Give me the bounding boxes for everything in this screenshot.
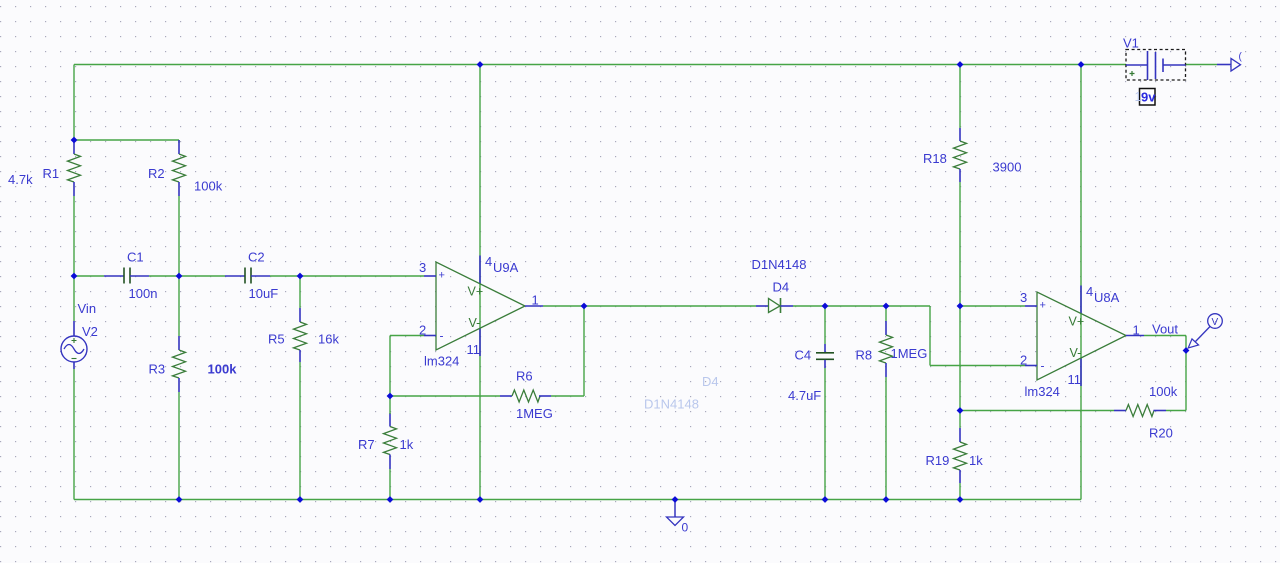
svg-text:Vout: Vout — [1152, 322, 1178, 337]
U9A minus sign — [440, 329, 444, 343]
svg-text:lm324: lm324 — [424, 354, 459, 369]
svg-text:lm324: lm324 — [1025, 384, 1060, 399]
R1 value 4.7k — [8, 172, 33, 187]
resistor R19 — [954, 428, 967, 483]
wire R2 to node — [178, 196, 180, 276]
svg-text:R1: R1 — [43, 166, 60, 181]
wire C1 to R3 node — [149, 275, 225, 277]
svg-text:100k: 100k — [208, 362, 238, 377]
U9A plus sign — [439, 270, 445, 282]
wire R1 top to R2 top — [74, 139, 179, 141]
D4 value D1N4148 — [752, 257, 807, 272]
junction C4 R8 — [883, 303, 890, 310]
svg-text:100k: 100k — [1149, 384, 1178, 399]
capacitor C1 — [104, 268, 149, 284]
svg-text:-: - — [1041, 359, 1045, 373]
junction D4 C4 — [822, 303, 829, 310]
wire node to R7 — [389, 396, 391, 414]
output port arrow — [1231, 52, 1243, 72]
wire node to R3 — [178, 276, 180, 336]
junction rail ground — [672, 496, 679, 503]
svg-text:V2: V2 — [82, 324, 98, 339]
wire top rail after V1 — [1186, 64, 1218, 66]
U9A pin number 1 — [532, 293, 539, 308]
wire R6 up to output node — [583, 306, 585, 396]
R19 reference designator — [926, 453, 950, 468]
wire R1 to C1 node — [73, 196, 75, 276]
R6 value 1MEG — [516, 406, 553, 421]
U9A pin name V- — [469, 316, 481, 330]
svg-text:V+: V+ — [468, 285, 484, 299]
wire R19 to rail — [959, 483, 961, 500]
U9A reference designator — [493, 260, 519, 275]
wire U9A pin2 left — [390, 335, 424, 337]
svg-text:R19: R19 — [926, 453, 950, 468]
wire R20 right — [1166, 410, 1186, 412]
R3 reference designator — [149, 362, 166, 377]
junction C2 R5 — [297, 273, 304, 280]
R1 reference designator — [43, 166, 60, 181]
wire to U8A pin2 — [930, 365, 1025, 367]
wire R3 to rail — [178, 392, 180, 500]
svg-text:Vin: Vin — [78, 301, 97, 316]
wire node to R8 — [885, 306, 887, 321]
svg-text:V-: V- — [469, 316, 481, 330]
op-amp U9A — [424, 262, 543, 350]
C2 reference designator — [248, 250, 265, 265]
svg-text:C1: C1 — [127, 250, 144, 265]
wire R5 to rail — [299, 362, 301, 500]
R19 value 1k — [969, 453, 983, 468]
R2 value 100k — [194, 179, 223, 194]
wire R6 left — [390, 395, 500, 397]
svg-text:-: - — [440, 329, 444, 343]
svg-text:+: + — [1040, 300, 1046, 312]
ghost label D4 — [702, 374, 719, 389]
junction R6 R7 pin2 — [387, 393, 394, 400]
junction C1 R3 — [176, 273, 183, 280]
svg-text:4.7k: 4.7k — [8, 172, 33, 187]
resistor R6 — [500, 390, 551, 402]
svg-text:1k: 1k — [400, 437, 414, 452]
svg-text:3: 3 — [1020, 290, 1027, 305]
C2 value 10uF — [249, 286, 279, 301]
svg-text:2: 2 — [1020, 353, 1027, 368]
U9A pin number 11 — [467, 342, 481, 357]
junction rail R19 — [957, 496, 964, 503]
D4 reference designator — [773, 280, 790, 295]
U8A pin name V- — [1070, 346, 1082, 360]
C4 value 4.7uF — [788, 388, 821, 403]
svg-text:1MEG: 1MEG — [891, 346, 928, 361]
wire V2 bottom to rail — [73, 369, 75, 500]
R5 value 16k — [318, 332, 339, 347]
wire C2 to U9A pin3 — [270, 275, 424, 277]
resistor R18 — [954, 128, 967, 182]
capacitor C4 — [816, 344, 834, 368]
U8A pin number 4 — [1086, 284, 1093, 299]
svg-text:R3: R3 — [149, 362, 166, 377]
svg-text:V: V — [1212, 317, 1219, 328]
svg-text:R7: R7 — [358, 437, 375, 452]
R8 reference designator — [856, 348, 873, 363]
resistor R8 — [880, 321, 893, 377]
C4 reference designator — [795, 348, 812, 363]
U9A supply pin stubs — [479, 256, 481, 357]
voltage probe marker — [1188, 314, 1222, 348]
wire R7 to rail — [389, 469, 391, 500]
wire V+ V- supply through U9A — [479, 65, 481, 500]
svg-text:V1: V1 — [1123, 36, 1139, 51]
junction U9A output — [581, 303, 588, 310]
wire divider node to U8A pin3 — [960, 305, 1025, 307]
ghost label D1N4148 — [644, 397, 699, 412]
wire node to R19 — [959, 411, 961, 429]
resistor R3 — [173, 336, 186, 392]
wire R8 node right — [886, 305, 930, 307]
junction rail C4 — [822, 496, 829, 503]
svg-text:100n: 100n — [129, 286, 158, 301]
svg-text:11: 11 — [1068, 372, 1082, 387]
net label Vin — [78, 301, 97, 316]
R18 reference designator — [923, 151, 947, 166]
U9A value lm324 — [424, 354, 459, 369]
voltage source V2 — [61, 321, 87, 369]
U8A pin number 2 — [1020, 353, 1027, 368]
svg-text:16k: 16k — [318, 332, 339, 347]
C1 value 100n — [129, 286, 158, 301]
R18 value 3900 — [993, 160, 1022, 175]
R6 reference designator — [516, 369, 533, 384]
svg-text:V+: V+ — [1069, 315, 1085, 329]
U9A pin number 2 — [419, 323, 426, 338]
wire R2 drop — [178, 140, 180, 143]
junction top rail U9A supply — [477, 61, 484, 68]
R20 reference designator — [1149, 426, 1173, 441]
ground symbol 0 — [667, 500, 684, 526]
C1 reference designator — [127, 250, 144, 265]
wire top rail — [74, 64, 1126, 66]
R7 reference designator — [358, 437, 375, 452]
R20 value 100k — [1149, 384, 1178, 399]
svg-text:R18: R18 — [923, 151, 947, 166]
wire left edge vertical — [73, 65, 75, 141]
resistor R20 — [1114, 405, 1166, 417]
svg-text:1: 1 — [1135, 89, 1142, 104]
wire node to C4 — [824, 306, 826, 344]
svg-text:V-: V- — [1070, 346, 1082, 360]
svg-text:9v: 9v — [1141, 90, 1156, 105]
junction R19 R20 — [957, 407, 964, 414]
wire C4 node to R8 node — [825, 305, 886, 307]
junction rail R5 — [297, 496, 304, 503]
V2 reference designator — [82, 324, 98, 339]
U8A minus sign — [1041, 359, 1045, 373]
svg-text:0: 0 — [682, 521, 689, 535]
U8A value lm324 — [1025, 384, 1060, 399]
svg-text:1k: 1k — [969, 453, 983, 468]
diode D4 — [756, 298, 793, 313]
svg-text:3: 3 — [419, 260, 426, 275]
wire down jog — [929, 306, 931, 366]
wire to output port — [1217, 64, 1231, 66]
svg-text:R2: R2 — [148, 166, 165, 181]
junction top rail R18 — [957, 61, 964, 68]
svg-text:100k: 100k — [194, 179, 223, 194]
op-amp U8A — [1025, 292, 1144, 380]
wire output down to R20 — [1185, 336, 1187, 411]
wire node to R20 — [960, 410, 1114, 412]
svg-text:10uF: 10uF — [249, 286, 279, 301]
wire R8 to rail — [885, 377, 887, 500]
svg-text:C4: C4 — [795, 348, 812, 363]
svg-text:4: 4 — [485, 254, 492, 269]
V1 value box 9v — [1135, 89, 1157, 106]
svg-text:C2: C2 — [248, 250, 265, 265]
svg-text:1MEG: 1MEG — [516, 406, 553, 421]
voltage source V1 — [1126, 50, 1186, 81]
resistor R7 — [384, 413, 397, 469]
wire R6 right — [551, 395, 584, 397]
svg-text:R6: R6 — [516, 369, 533, 384]
wire bottom rail — [74, 499, 1081, 501]
U8A pin number 3 — [1020, 290, 1027, 305]
wire D4 to C4 node — [793, 305, 825, 307]
junction Vout probe — [1183, 347, 1190, 354]
wire C4 to rail — [824, 368, 826, 500]
junction rail R8 — [883, 496, 890, 503]
wire V2 top — [73, 276, 75, 321]
wire node to R5 — [299, 276, 301, 308]
U9A pin name V+ — [468, 285, 484, 299]
svg-text:R20: R20 — [1149, 426, 1173, 441]
U8A reference designator — [1094, 290, 1120, 305]
junction top rail U8A supply — [1078, 61, 1085, 68]
svg-text:D4: D4 — [702, 374, 719, 389]
wire U8A output right — [1144, 335, 1186, 337]
wire pin2 down to R6 node — [389, 336, 391, 397]
U8A pin name V+ — [1069, 315, 1085, 329]
svg-text:D1N4148: D1N4148 — [752, 257, 807, 272]
junction R1 R2 — [71, 137, 78, 144]
U8A plus sign — [1040, 300, 1046, 312]
svg-text:4: 4 — [1086, 284, 1093, 299]
svg-text:D4: D4 — [773, 280, 790, 295]
V1 reference designator — [1123, 36, 1139, 51]
resistor R2 — [173, 140, 186, 196]
junction Vin C1 — [71, 273, 78, 280]
U9A pin number 4 — [485, 254, 492, 269]
capacitor C2 — [225, 268, 270, 284]
R5 reference designator — [268, 332, 285, 347]
ground net name 0 — [682, 521, 689, 535]
wire V+ V- supply through U8A — [1080, 65, 1082, 500]
U8A pin number 11 — [1068, 372, 1082, 387]
resistor R5 — [294, 308, 307, 362]
R3 value 100k — [208, 362, 238, 377]
svg-text:4.7uF: 4.7uF — [788, 388, 821, 403]
wire U9A output to D4 — [543, 305, 756, 307]
net label Vout — [1152, 322, 1178, 337]
R7 value 1k — [400, 437, 414, 452]
U8A pin number 1 — [1133, 323, 1140, 338]
svg-text:1: 1 — [532, 293, 539, 308]
svg-text:R5: R5 — [268, 332, 285, 347]
svg-text:1: 1 — [1133, 323, 1140, 338]
U9A pin number 3 — [419, 260, 426, 275]
svg-text:+: + — [439, 270, 445, 282]
R2 reference designator — [148, 166, 165, 181]
svg-text:U8A: U8A — [1094, 290, 1120, 305]
svg-text:11: 11 — [467, 342, 481, 357]
R8 value 1MEG — [891, 346, 928, 361]
resistor R1 — [68, 140, 81, 196]
svg-text:3900: 3900 — [993, 160, 1022, 175]
wire R18 to divider node — [959, 182, 961, 411]
svg-text:R8: R8 — [856, 348, 873, 363]
U8A supply pin stubs — [1080, 286, 1082, 387]
svg-text:D1N4148: D1N4148 — [644, 397, 699, 412]
junction divider U8A pin3 — [957, 303, 964, 310]
wire node Vin to C1 — [74, 275, 104, 277]
svg-text:U9A: U9A — [493, 260, 519, 275]
junction rail R3 — [176, 496, 183, 503]
junction rail R7 — [387, 496, 394, 503]
junction rail U9A supply — [477, 496, 484, 503]
wire rail to R18 — [959, 65, 961, 129]
